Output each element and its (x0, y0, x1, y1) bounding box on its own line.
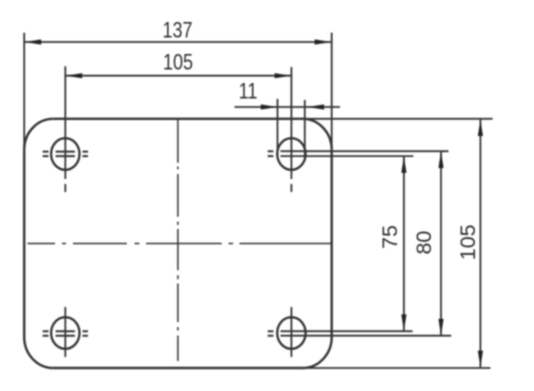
dim 11 line (235, 106, 341, 108)
vertical centerline (dash-dot) (177, 120, 179, 362)
svg-text:105: 105 (163, 51, 193, 75)
plate left edge (with extension up for 137 dim) (23, 150, 25, 337)
hole top-right vertical centerline (also 105 dim extension) (290, 67, 292, 192)
arrow 137 right (315, 39, 332, 44)
arrow 105h right (275, 73, 292, 78)
hole bottom-left chord lines (56, 331, 75, 336)
hole top-right chord upper (extension line for 80 dim) (281, 150, 449, 152)
svg-text:11: 11 (239, 80, 258, 104)
arrow 75 top (401, 156, 406, 173)
plate corner arc top-left (24, 119, 53, 150)
arrow 11 left (outside, pointing right) (261, 104, 278, 109)
arrow 105v bottom (478, 351, 483, 368)
hole bottom-left vertical centerline (64, 307, 66, 357)
horizontal centerline (dash-dot) (28, 243, 332, 245)
plate corner arc bottom-right (303, 337, 332, 368)
arrow 80 top (438, 151, 443, 168)
arrow 105h left (66, 73, 83, 78)
svg-text:75: 75 (378, 225, 402, 249)
svg-text:80: 80 (412, 231, 436, 255)
arrow 105v top (478, 119, 483, 136)
hole bottom-right vertical centerline (290, 307, 292, 357)
hole top-right chord lower (extension line for 75 dim) (281, 155, 414, 157)
arrow 80 bottom (438, 319, 443, 336)
dim 137 line (25, 41, 331, 43)
hole top-left chord lines (56, 152, 75, 157)
hole bottom-left side dashes (43, 331, 88, 336)
hole bottom-right circle (277, 317, 305, 349)
arrow 137 left (25, 39, 42, 44)
dim 80 line (440, 152, 442, 336)
plate bottom edge (with extension to right) (53, 367, 303, 369)
svg-text:137: 137 (162, 19, 192, 43)
hole top-right side dashes (268, 151, 274, 156)
dim 11 extension line right (304, 100, 306, 158)
hole bottom-left circle (51, 317, 79, 349)
hole bottom-right chord upper (extension line for 75 dim) (281, 330, 413, 332)
plate top edge (with extension to right for vertical 105 dim) (53, 118, 303, 120)
hole top-right circle (277, 138, 305, 170)
dim 105 horizontal line (66, 75, 291, 77)
hole bottom-right chord lower (extension line for 80 dim) (281, 335, 452, 337)
hole bottom-right side dashes (268, 331, 274, 336)
arrow 11 right (outside, pointing left) (308, 104, 325, 109)
plate corner arc bottom-left (24, 337, 53, 368)
dim 75 line (403, 157, 405, 331)
plate corner arc top-right (303, 119, 332, 150)
dim 105 vertical line (479, 120, 481, 368)
dim 11 extension line left (277, 99, 279, 158)
hole top-left vertical centerline (also 105 dim extension) (64, 66, 66, 192)
hole top-left circle (51, 138, 79, 170)
arrow 75 bottom (401, 314, 406, 331)
hole top-left side dashes (43, 152, 88, 157)
svg-text:105: 105 (456, 224, 480, 260)
plate right edge (with extension up for 137 dim) (331, 150, 333, 337)
